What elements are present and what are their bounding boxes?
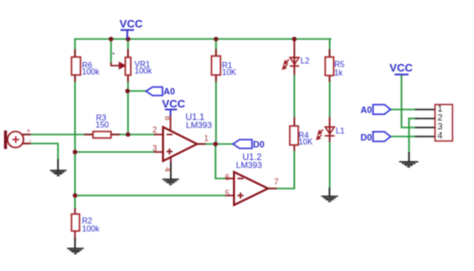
svg-text:8: 8	[163, 116, 172, 121]
svg-text:A0: A0	[164, 87, 176, 97]
svg-text:L1: L1	[336, 127, 345, 136]
svg-text:4: 4	[163, 167, 172, 172]
svg-text:L2: L2	[301, 57, 310, 66]
svg-text:3: 3	[153, 144, 158, 153]
svg-text:150: 150	[96, 121, 110, 130]
svg-text:7: 7	[274, 178, 279, 187]
svg-text:4: 4	[438, 131, 443, 141]
svg-text:100k: 100k	[82, 68, 100, 77]
svg-text:D0: D0	[361, 133, 373, 143]
svg-text:10K: 10K	[299, 138, 314, 147]
svg-text:VCC: VCC	[390, 63, 413, 75]
svg-text:+: +	[27, 128, 31, 135]
svg-text:LM393: LM393	[236, 160, 262, 170]
svg-text:100k: 100k	[135, 67, 153, 76]
svg-text:1k: 1k	[334, 69, 343, 78]
svg-text:10K: 10K	[222, 68, 237, 77]
svg-text:LM393: LM393	[186, 120, 212, 130]
svg-text:A0: A0	[361, 105, 373, 115]
svg-text:6: 6	[225, 173, 230, 182]
svg-text:VCC: VCC	[120, 19, 143, 31]
svg-text:2: 2	[153, 126, 158, 135]
svg-text:VCC: VCC	[162, 99, 185, 111]
svg-text:100k: 100k	[82, 225, 100, 234]
svg-text:D0: D0	[253, 140, 265, 150]
svg-text:1: 1	[204, 134, 209, 143]
svg-text:5: 5	[225, 189, 230, 198]
